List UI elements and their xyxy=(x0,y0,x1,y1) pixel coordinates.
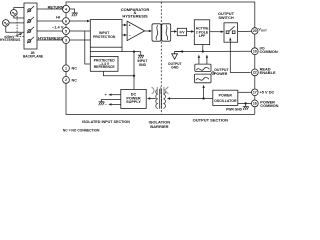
switch contact right xyxy=(232,31,235,34)
svg-text:+5 V DC: +5 V DC xyxy=(260,90,275,95)
input common rail vertical xyxy=(133,52,135,90)
wire F/V to LPF (arrow) xyxy=(187,30,195,32)
svg-text:HI: HI xyxy=(56,15,60,20)
terminal 6 (HI) xyxy=(63,18,70,25)
svg-text:POWER: POWER xyxy=(214,72,228,76)
terminal 4 (RETURN) xyxy=(62,5,69,12)
terminal 17 (+5V DC) xyxy=(252,89,259,96)
wire V2 bottom to backplane xyxy=(6,26,24,32)
switch S2 xyxy=(27,17,34,23)
svg-text:HYSTERESIS: HYSTERESIS xyxy=(0,38,20,42)
module outline left border segments xyxy=(65,13,67,77)
svg-text:HYSTERESIS: HYSTERESIS xyxy=(38,35,63,40)
svg-text:22: 22 xyxy=(253,71,257,75)
wire HYSTERESIS to input protection xyxy=(70,39,91,41)
link input protection to reference xyxy=(89,47,91,56)
junction PWR GND xyxy=(244,102,246,104)
terminal 19 (I/O COMMON) xyxy=(251,48,258,55)
svg-text:−: − xyxy=(129,34,131,38)
supply up-arrow left xyxy=(198,55,200,65)
junction input gnd xyxy=(133,50,135,52)
switch S1 xyxy=(27,6,34,12)
LPF ground drop xyxy=(202,45,204,52)
wire V1 top to backplane row1 xyxy=(14,8,24,10)
wire V1 bottom to backplane xyxy=(14,16,24,18)
svg-text:NC = NO CONNECTION: NC = NO CONNECTION xyxy=(63,128,100,132)
wire coupler to F/V (arrow) xyxy=(171,30,178,32)
svg-text:6: 6 xyxy=(65,19,67,23)
svg-text:19: 19 xyxy=(253,50,257,54)
module outline top border xyxy=(66,2,255,28)
output ground symbol (open triangle) xyxy=(172,54,178,59)
terminal 1 (NC) xyxy=(63,65,70,72)
svg-text:ENABLE: ENABLE xyxy=(260,70,276,75)
AC source V2 (lower) xyxy=(3,20,10,27)
dashed hysteresis option wire xyxy=(17,13,24,37)
svg-text:4: 4 xyxy=(65,7,67,11)
wire oscillator rail to rectifier (up arrow) xyxy=(202,85,204,99)
active 2 pole LPF box xyxy=(194,20,209,45)
svg-text:5: 5 xyxy=(65,29,67,33)
chassis ground (INPUT GND) xyxy=(138,55,144,58)
svg-text:16: 16 xyxy=(253,102,257,106)
wire backplane row1 to terminal 4 xyxy=(37,8,62,10)
read enable control wire with up arrow xyxy=(229,37,251,72)
svg-text:20: 20 xyxy=(253,29,257,33)
terminal 22 (READ ENABLE) xyxy=(251,69,258,76)
svg-text:NC: NC xyxy=(72,78,78,82)
output ground stem xyxy=(175,52,183,54)
wire oscillator to power transformer (arrow) xyxy=(167,97,213,99)
svg-text:REFERENCE: REFERENCE xyxy=(94,65,116,69)
terminal 3 (HYSTERESIS) xyxy=(63,37,70,44)
junction at output gnd xyxy=(181,50,183,52)
power transformer secondary (left winding) xyxy=(156,89,158,108)
input common rail horizontal xyxy=(90,51,134,53)
wire transformer to DC supply (arrow) xyxy=(147,97,156,99)
junction reference rail xyxy=(133,75,135,77)
svg-text:GND: GND xyxy=(171,65,179,69)
terminal 20 (VOUT) xyxy=(252,28,258,34)
svg-text:–1.4 V: –1.4 V xyxy=(52,25,64,30)
coupling hook xyxy=(212,72,214,74)
output power rectifier lower box xyxy=(194,74,211,83)
wire backplane row2 to terminal 6 xyxy=(37,20,63,22)
svg-text:OUTPUT SECTION: OUTPUT SECTION xyxy=(193,118,228,123)
chassis ground (PWR GND) xyxy=(243,107,249,110)
wire reference bottom to rail xyxy=(103,71,134,76)
protected reference box xyxy=(90,56,118,71)
svg-text:GND: GND xyxy=(139,63,147,67)
power oscillator box xyxy=(213,90,238,105)
AC source V1 (upper) xyxy=(11,10,18,17)
svg-text:3: 3 xyxy=(65,38,67,42)
svg-text:−: − xyxy=(105,103,107,107)
output switch box xyxy=(224,23,238,42)
wire V2 right to backplane xyxy=(9,22,24,24)
svg-text:OSCILLATOR: OSCILLATOR xyxy=(214,99,237,103)
wire protection to comparator - (arrow) xyxy=(122,34,127,36)
power transformer primary (right winding) xyxy=(163,89,165,108)
DC power supply box xyxy=(121,89,146,108)
terminal 5 (-1.4V) xyxy=(63,28,70,35)
wire switch to terminal 20 xyxy=(238,30,252,32)
svg-text:BACKPLANE: BACKPLANE xyxy=(23,54,43,58)
switch S4 xyxy=(27,37,34,43)
svg-text:HYSTERESIS: HYSTERESIS xyxy=(122,14,148,19)
switch contact left xyxy=(226,31,229,34)
wire oscillator to terminal 16 xyxy=(238,102,252,104)
svg-text:COMMON: COMMON xyxy=(260,103,278,108)
signal coupling transformer right half xyxy=(162,24,171,41)
svg-text:SWITCH: SWITCH xyxy=(218,15,234,20)
supply up-arrow right xyxy=(206,55,208,65)
wire terminal 4 to chassis ground xyxy=(70,9,75,13)
wire input protection bottom-right to rail xyxy=(121,47,123,51)
wire protection to comparator + (arrow) xyxy=(122,24,127,26)
signal coupling transformer left half xyxy=(152,24,161,41)
wire backplane row4 to terminal 3 xyxy=(37,39,63,41)
chassis ground (RETURN) xyxy=(72,13,78,16)
wire backplane row3 to terminal 5 xyxy=(37,30,63,32)
module outline right border segments xyxy=(254,34,256,114)
supply - output (left arrow) xyxy=(105,103,121,107)
watermark glyphs xyxy=(152,87,169,94)
supply + output (left arrow) xyxy=(105,93,121,97)
svg-text:+: + xyxy=(129,23,131,27)
wire terminal 3 down to terminal 1 xyxy=(65,44,67,65)
svg-text:NC: NC xyxy=(72,67,78,71)
svg-text:17: 17 xyxy=(253,91,257,95)
svg-text:2: 2 xyxy=(65,78,67,82)
terminal 16 (POWER COMMON) xyxy=(251,100,258,107)
junction at LPF drop xyxy=(202,50,204,52)
svg-text:COMMON: COMMON xyxy=(260,49,278,54)
backplane switch box xyxy=(24,3,37,49)
F/V converter box xyxy=(177,28,186,35)
wire LPF to output switch (arrow) xyxy=(210,31,224,33)
op-amp comparator U1 xyxy=(127,21,145,40)
I/O common rail xyxy=(175,50,252,52)
wire comparator to coupler (arrow) xyxy=(145,30,152,32)
switch lever xyxy=(229,26,235,31)
isolation barrier dashed line xyxy=(160,2,162,114)
svg-text:LPF: LPF xyxy=(199,34,206,38)
PWR GND stem xyxy=(245,103,247,106)
svg-text:PROTECTION: PROTECTION xyxy=(93,35,116,39)
svg-text:1: 1 xyxy=(65,67,67,71)
chassis ground (supply) xyxy=(99,102,105,105)
input protection box xyxy=(90,20,122,48)
junction on oscillator rail xyxy=(202,97,204,99)
wire -1.4V to input protection xyxy=(70,30,91,32)
svg-text:SUPPLY: SUPPLY xyxy=(126,100,141,104)
wire oscillator to terminal 17 xyxy=(238,91,252,93)
svg-text:POWER: POWER xyxy=(219,94,233,98)
svg-text:+: + xyxy=(105,93,107,97)
switch S3 xyxy=(27,27,34,33)
module outline bottom border xyxy=(66,83,255,114)
wire HI to input protection (arrow) xyxy=(69,20,90,22)
wire branch -1.4V down to reference xyxy=(85,31,91,64)
terminal 2 (NC) xyxy=(63,77,70,84)
svg-text:PWR GND: PWR GND xyxy=(226,107,243,111)
supply ground wire xyxy=(101,100,121,102)
svg-text:F/V: F/V xyxy=(180,30,186,34)
output power rectifier upper box xyxy=(195,64,211,71)
svg-text:BARRIER: BARRIER xyxy=(150,124,168,129)
input gnd stub xyxy=(134,52,141,56)
power transformer core xyxy=(160,89,162,109)
svg-text:ISOLATED INPUT SECTION: ISOLATED INPUT SECTION xyxy=(82,120,130,124)
hysteresis pointer arrow xyxy=(16,33,23,36)
